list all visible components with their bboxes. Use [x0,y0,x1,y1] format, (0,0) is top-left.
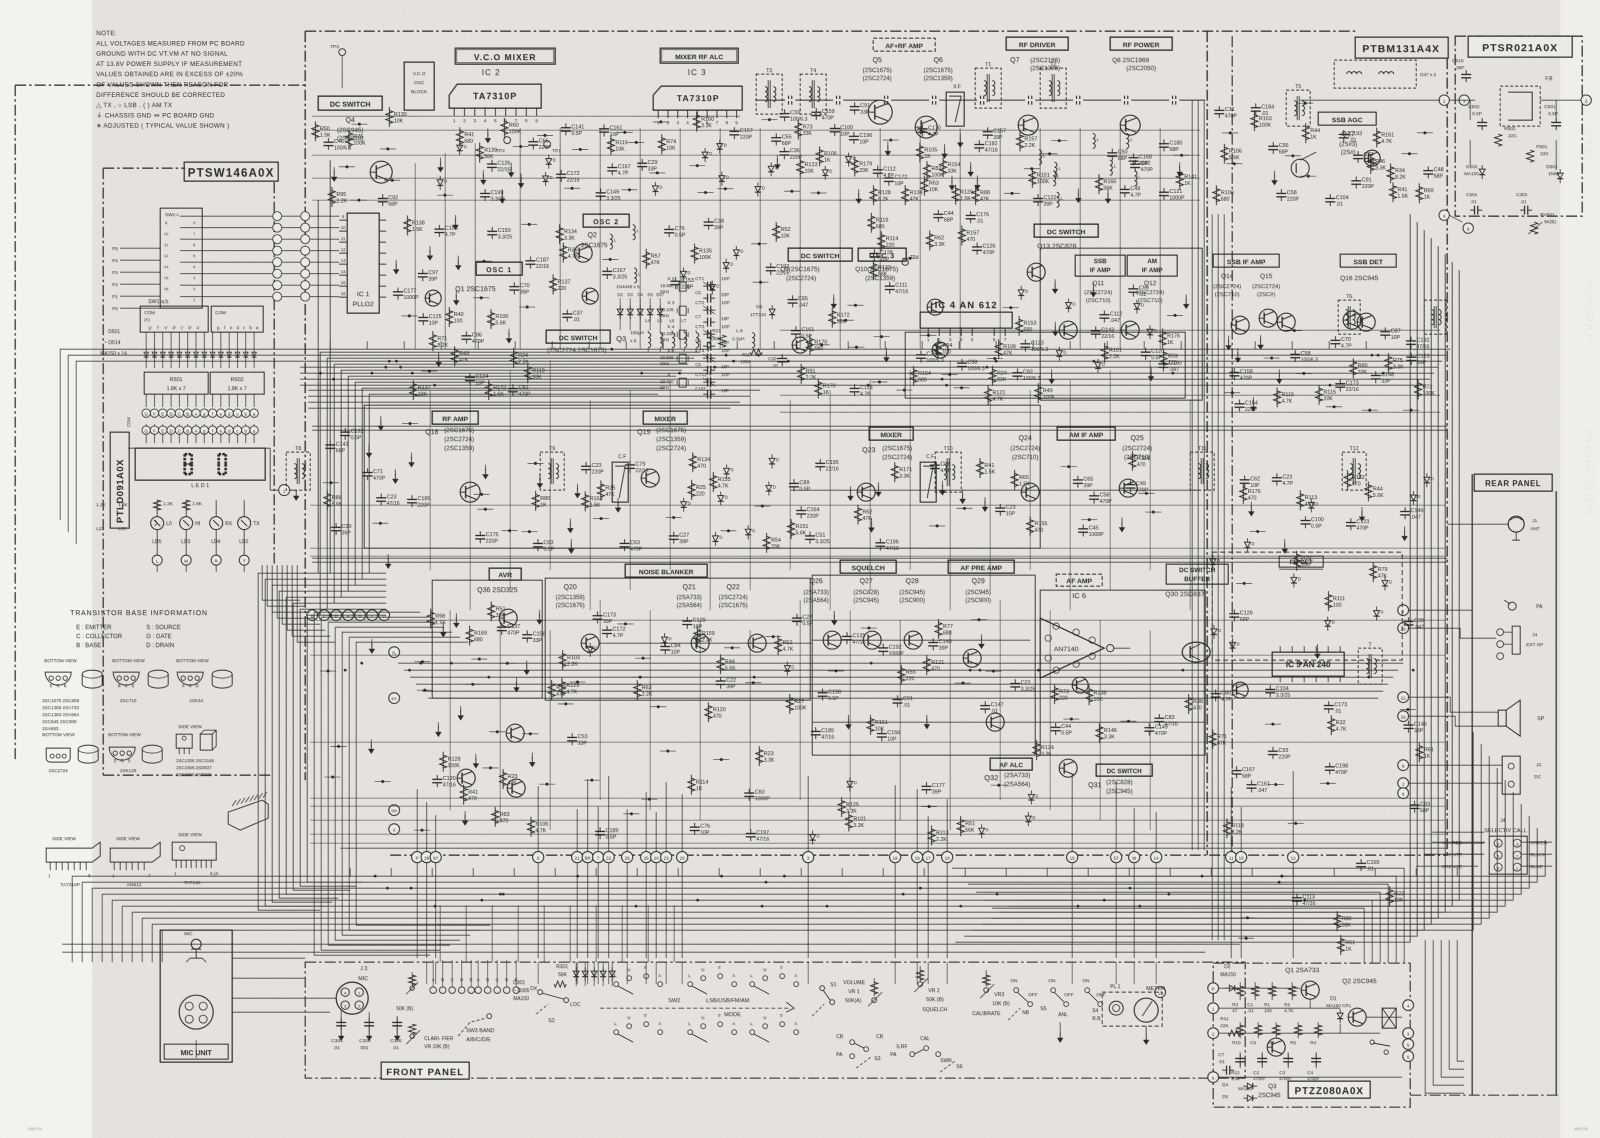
node junction [358,123,361,126]
switch SW1-c block [160,208,202,308]
transformer T7 [1424,300,1446,334]
capacitor C69 [418,272,428,274]
node junction [609,258,612,261]
node junction [345,165,348,168]
resistor R176 [692,452,694,472]
label box DC SWITCH Q3 [546,330,610,343]
resistor R38 [1019,131,1021,151]
capacitor C168 [1268,145,1278,147]
scan artifact ghost right edge [1583,130,1595,517]
resistor R34 [848,811,850,831]
resistor R85 [490,309,492,329]
capacitor C153 [1406,340,1416,342]
capacitor C142 [1409,804,1419,806]
mic unit border [160,930,232,1062]
transformer T4 [800,74,826,114]
resistor R51 [600,480,602,500]
resistor R157 [1296,551,1298,571]
ground [943,144,945,150]
resistor R85 [1242,484,1244,504]
ceramic filter XF [946,92,964,126]
ground [576,484,578,490]
capacitor C169 [1125,484,1135,486]
transistor Q12 [1121,321,1139,339]
wire bus left bundle verticals [258,573,386,910]
resistor R64 [502,769,504,789]
resistor R157 [765,533,767,553]
resistor R21 [1018,316,1020,336]
node junction [854,304,857,307]
IC U5 AN240 [1272,652,1344,676]
node junction [844,319,847,322]
label box AF PRE AMP [948,560,1014,573]
node junction [1067,465,1070,468]
relay RL1 [1382,1008,1396,1028]
resistor R120 [1162,349,1164,369]
diode D [719,176,725,181]
capacitor C89 [1335,383,1345,385]
capacitor C99 [1276,192,1286,194]
capacitor C304 [340,1016,342,1030]
resistor R110 [719,654,721,674]
capacitor C121 [1351,180,1361,182]
resistor R67 [331,187,333,207]
node junction [599,517,602,520]
ground [438,352,440,358]
capacitor C76 [842,635,852,637]
node junction [867,626,870,629]
diode D [784,665,790,670]
ground [370,739,372,745]
node junction [672,516,675,519]
node junction dots on buses [678,372,681,375]
resistor R122 [696,112,698,132]
resistor R68 [923,176,925,196]
diode D [845,157,851,162]
resistor R170 [490,601,492,621]
ground [1150,367,1152,373]
capacitor C107 [933,213,943,215]
enclosure squelch [812,575,1035,755]
capacitor C83 [1159,191,1169,193]
wire horizontal af rows [310,505,1445,843]
diode D [1065,302,1071,307]
diode D [1373,610,1379,615]
diode D [822,170,828,175]
resistor R26 [1187,694,1189,714]
resistor R130 [1276,387,1278,407]
resistor R68 [1417,379,1419,399]
capacitor C125 [928,641,938,643]
terminal 3 ptsr [1459,95,1469,105]
capacitor C28 [362,471,372,473]
ground [1273,171,1275,177]
label box SSB IF AMP [1075,255,1125,276]
transistor Q1 PTZZ [1301,981,1319,999]
capacitor C91 [789,482,799,484]
resistor R128 [919,142,921,162]
transistor Q11 [1059,321,1077,339]
capacitor C117 [811,111,821,113]
transistor Q36 [499,609,517,627]
transformer T6 [1338,300,1360,334]
node junction [482,260,485,263]
node junction [570,187,573,190]
capacitor C186 [921,785,931,787]
capacitor C103 [480,192,490,194]
capacitor C165 [1231,770,1241,772]
node junction [1152,510,1155,513]
transistor Q16 [1357,313,1375,331]
resistor R34 [1223,144,1225,164]
diode D [718,496,724,501]
terminal 1 ptsr [1439,95,1449,105]
wire bus front panel feeders [440,905,674,962]
node junction [936,524,939,527]
resistor R21 [797,119,799,139]
ground [442,623,444,629]
capacitor C20 [508,387,518,389]
terminal 4 ptsr [1439,210,1449,220]
node junction [731,646,734,649]
transformer T10 [935,452,961,492]
resistor R138 [912,366,914,386]
label PTLD091A0X [110,432,129,528]
capacitor C78 [1268,750,1278,752]
wire horizontal IF strip [780,330,1440,412]
node junction [1302,372,1305,375]
LED display LED1 [135,448,265,480]
mic unit connector [179,995,213,1029]
switch SW2 mode wafer 1 [614,982,619,987]
resistor R95 [696,626,698,646]
node junction [790,190,793,193]
terminal T [239,555,249,565]
capacitor C44 [637,162,647,164]
node junction [1256,530,1259,533]
label box OSC 3 [858,248,906,261]
ground [976,175,978,181]
label box SSB AGC [1318,112,1376,125]
board PTZZ080A0X outline [1213,963,1410,1107]
resistor R25 [1336,911,1338,931]
resistor R155 [463,785,465,805]
resistor R148 [1392,182,1394,202]
capacitor C129 [1158,363,1168,365]
resistor R125 [1389,163,1391,183]
capacitor C154 [1012,372,1022,374]
capacitor C84 [1078,528,1088,530]
capacitor C104 [1229,371,1239,373]
package drawing AN240 perspective [228,800,268,830]
resistor R111 [799,157,801,177]
wire ptzz internals [1218,987,1300,989]
terminal column P bus right [301,212,310,221]
diode D [755,186,761,191]
resistor R69 [974,185,976,205]
node junction [1243,582,1246,585]
ground [980,634,982,640]
ground [482,170,484,176]
ground [457,256,459,262]
test point TP1 [544,141,551,148]
terminal 2 ptsr [1581,95,1591,105]
capacitor C99 [1099,314,1109,316]
resistor R121 [1418,183,1420,203]
capacitor C80 [1353,154,1363,156]
node junction [357,199,360,202]
transformer T11 [1190,452,1214,490]
transistor Q30 power [1182,642,1210,662]
relay contacts [1370,1040,1374,1044]
capacitor C28 [434,228,444,230]
diode D [542,176,548,181]
inductor L [1134,171,1137,186]
capacitor C191 [533,542,543,544]
ground [1259,335,1261,341]
capacitor C143 [1403,620,1413,622]
capacitor C92 [1272,477,1282,479]
capacitor C75 [602,629,612,631]
node junction [1245,937,1248,940]
wire drops to bottom terminals [417,771,1293,851]
transistor Q2b [582,288,598,304]
resistor R114 [900,665,902,685]
capacitor C69 [930,464,940,466]
transformer T8 [286,452,310,490]
node junction [529,732,532,735]
capacitor C46 [619,542,629,544]
wire bus left bundle verticals second [314,612,490,955]
capacitor C130 [592,615,602,617]
node junction [908,257,911,260]
node junction [391,179,394,182]
ground [833,611,835,617]
node junction [656,171,659,174]
node junction [1127,720,1130,723]
transistor Qaf [986,713,1004,731]
ground [926,715,928,721]
node junction [927,805,930,808]
capacitor C198 [1130,163,1140,165]
resistor R43 [551,680,553,700]
terminal 5 PTZZ right [1403,1039,1414,1050]
node junction [724,187,727,190]
transistor Q23 [857,483,875,501]
node junction [543,134,546,137]
wire verticals mid band [430,360,1190,610]
label box MIXER Q23 [869,427,913,440]
resistor R135 [961,225,963,245]
node junction [480,493,483,496]
LED indicator LD5 L0 [151,517,164,530]
resistor 1.8K LED [185,500,187,516]
wire bus board edge verticals [1192,100,1204,850]
resistor R85 [314,121,316,141]
inductor L [1039,150,1042,165]
terminal 6 PTZZ [1208,1072,1219,1083]
ground [959,133,961,139]
ground [858,189,860,195]
ground [1054,322,1056,328]
capacitor C86 [1089,495,1099,497]
diode D [769,458,775,463]
capacitor C66 [1073,479,1083,481]
diode D [1424,477,1430,482]
jack J2 DC [1502,756,1520,794]
resistor R28 [930,825,932,845]
label PTSR021A0X [1468,36,1572,57]
jack J4 EXT SP [1497,629,1504,636]
capacitor C186 [664,228,674,230]
resistor R71 [690,775,692,795]
capacitor C100 [885,285,895,287]
capacitor C63 [669,535,679,537]
transistor Q32 [1059,759,1077,777]
resistor R91 [800,364,802,384]
ground [776,155,778,161]
capacitor C172 [461,335,471,337]
wire display board bus [120,247,160,249]
IC U3 TA7310P [653,86,742,110]
node junction [1009,306,1012,309]
resistor R49 [998,339,1000,359]
diode D [1210,559,1216,564]
capacitor C129 [1325,766,1335,768]
label box V.C.O MIXER [455,48,555,64]
label box MIXER Q19 [643,411,687,424]
main board outline PTBM131A4X [305,30,1355,32]
wire ptsr links [1449,99,1475,101]
label box NOISE BLANKER [625,564,707,577]
capacitor C127 [596,192,606,194]
terminal 2 PTZZ [1208,1028,1219,1039]
wire mic leads [340,1010,342,1016]
wire bus lower horizontal bundle [72,732,1545,930]
diode D [1147,329,1153,334]
capacitor C141 [1400,510,1410,512]
ground [510,163,512,169]
resistor R51 [584,491,586,511]
node junction [666,749,669,752]
resistor R152 [954,185,956,205]
display board outline PTSW146A0X [103,167,185,169]
label box MIXER RF ALC [660,48,738,63]
capacitor C81 [1330,339,1340,341]
ground [1092,283,1094,289]
diode D [661,637,667,642]
node junction [641,657,644,660]
node junction [997,784,1000,787]
wire LED common [128,447,135,449]
node junction [834,669,837,672]
ground [1121,518,1123,524]
capacitor C182 [877,733,887,735]
ground [520,173,522,179]
capacitor C161 [815,462,825,464]
ground [501,189,503,195]
capacitor C84 [1144,727,1154,729]
node junction [508,529,511,532]
enclosure SSB IF strip [1040,248,1202,400]
node junction [1280,875,1283,878]
resistor R126 [513,348,515,368]
terminal 3 PTZZ right [1403,1028,1414,1039]
capacitor C32 [1246,784,1256,786]
transistor Q3 PTZZ [1267,1038,1285,1056]
resistor R172 [818,146,820,166]
capacitor C97 [378,197,388,199]
inductor L [1093,133,1096,148]
ground [847,715,849,721]
IC U2 TA7310P [449,84,541,108]
diode pack D47 dashed box [1334,60,1416,88]
resistor R146 [1387,353,1389,373]
node junction [880,335,883,338]
terminal 12 bottom [1155,987,1166,998]
resistor R27 [1346,470,1348,490]
node junction [1030,167,1033,170]
capacitor C86 [340,431,350,433]
resistor R43 [459,127,461,147]
capacitor C91 [972,246,982,248]
capacitor C35 [602,270,612,272]
ground [526,660,528,666]
capacitor C70 [1290,353,1300,355]
diode D [681,502,687,507]
ferrite bead FB rear [1500,86,1540,126]
node junction [331,775,334,778]
resistor R119 [929,230,931,250]
test point TP2 [504,137,511,144]
enclosure noise blanker [545,578,810,700]
enclosure AVR [432,580,542,698]
potentiometer VR2 SQUELCH [918,982,923,987]
node junction [326,669,329,672]
test point TP3 [339,49,346,56]
resistor 1.2K LED [156,500,158,516]
ground [515,678,517,684]
ground [849,486,851,492]
resistor R77 [1226,818,1228,838]
ground [394,469,396,475]
ground [1185,294,1187,300]
node junction [960,386,963,389]
node junction [1304,102,1307,105]
transformer T2 [1040,68,1066,108]
wire series capacitors RF chain [787,96,789,105]
transistor Q25 [1119,479,1137,497]
capacitor C125 [983,131,993,133]
ground [380,416,382,422]
capacitor C89 [787,299,797,301]
ground [970,162,972,168]
label PTSW146A0X [184,162,278,181]
capacitor C174 [1128,288,1138,290]
diode D [717,144,723,149]
resistor R113 [960,816,962,836]
resistor R87 [693,243,695,263]
capacitor C67 [1339,133,1349,135]
LED indicator LD2 TX [238,517,251,530]
resistor R130 [1330,715,1332,735]
node junction [659,120,662,123]
transistor Q31 [1072,677,1088,693]
rear panel border [1471,474,1473,1095]
capacitor C38 [771,137,781,139]
capacitor C28 [811,730,821,732]
diode D [733,250,739,255]
